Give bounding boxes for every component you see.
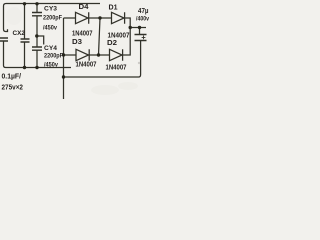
plus sign 47u — [142, 36, 146, 40]
svg-text:1N4007: 1N4007 — [106, 63, 127, 72]
node dot cap top — [138, 26, 141, 29]
capacitor CY3 plates — [32, 13, 42, 16]
node dot output minus — [62, 75, 65, 78]
node dot CX2 top — [23, 2, 26, 5]
svg-text:CX2: CX2 — [13, 30, 26, 37]
wire D3 cathode — [89, 54, 98, 56]
capacitor CX2 plates — [21, 39, 30, 42]
wire cap C-out stub — [139, 28, 141, 35]
svg-text:1N4007: 1N4007 — [76, 60, 97, 69]
diode D1 — [112, 12, 125, 23]
wire CY column middle — [36, 16, 38, 47]
wire center vertical — [99, 18, 101, 55]
faint scan smudges — [91, 85, 119, 95]
diode D2 — [110, 49, 123, 60]
wire D1 anode — [100, 17, 112, 19]
svg-text:275v×2: 275v×2 — [2, 83, 24, 92]
svg-text:D1: D1 — [109, 5, 118, 12]
wire cap bottom to bottom rail — [64, 41, 141, 78]
diode D3 — [76, 49, 89, 60]
wire D4 cathode to node — [89, 17, 100, 19]
node dot bridge bottom mid — [97, 53, 100, 56]
svg-text:/450v: /450v — [43, 25, 57, 32]
node dot A (CY mid) — [35, 34, 38, 37]
wire output top — [130, 27, 146, 29]
node dot D1-D2 junction — [129, 26, 132, 29]
wire mid stub from node A — [37, 36, 44, 45]
wire CY column upper — [36, 4, 38, 13]
wire CY column lower — [36, 50, 38, 67]
wire bridge left vertical — [63, 18, 65, 77]
svg-text:/400v: /400v — [136, 16, 149, 23]
node dot CX2 bottom — [23, 66, 26, 69]
svg-text:1N4007: 1N4007 — [72, 29, 93, 38]
AC plug prong P1 — [4, 4, 8, 32]
svg-text:CY3: CY3 — [44, 6, 57, 13]
node dot bridge top mid — [98, 16, 101, 19]
capacitor 47u plates — [135, 35, 147, 41]
wire left down to bottom rail — [4, 42, 72, 68]
wire D4 anode — [64, 17, 76, 19]
diode D4 — [76, 12, 89, 23]
wire D3 anode — [64, 54, 77, 56]
svg-text:D4: D4 — [79, 4, 89, 11]
svg-text:/450v: /450v — [44, 62, 58, 69]
wire D1 cathode up corner — [125, 18, 131, 28]
wire D2 cathode up corner — [123, 28, 131, 56]
svg-text:47µ: 47µ — [138, 6, 149, 15]
svg-text:CY4: CY4 — [44, 45, 57, 52]
wire drop to bottom edge — [63, 77, 65, 99]
wire CX2 branch lower — [24, 42, 26, 67]
svg-text:2200pF: 2200pF — [43, 15, 62, 22]
node dot D3 anode — [62, 53, 65, 56]
svg-text:2200pF: 2200pF — [44, 53, 63, 60]
wire CX2 branch upper — [24, 4, 26, 39]
svg-text:1N4007: 1N4007 — [108, 31, 130, 40]
wire top rail — [6, 3, 100, 5]
svg-text:D2: D2 — [107, 40, 117, 47]
capacitor CX1 plates — [0, 38, 8, 41]
svg-text:0.1µF/: 0.1µF/ — [2, 72, 22, 81]
svg-text:D3: D3 — [72, 39, 82, 46]
wire D2 anode — [99, 54, 110, 56]
scan speck near right vertical — [138, 62, 140, 64]
background — [0, 0, 149, 99]
node dot CY top — [35, 2, 38, 5]
node dot CY bottom — [35, 66, 38, 69]
capacitor CY4 plates — [32, 47, 42, 50]
